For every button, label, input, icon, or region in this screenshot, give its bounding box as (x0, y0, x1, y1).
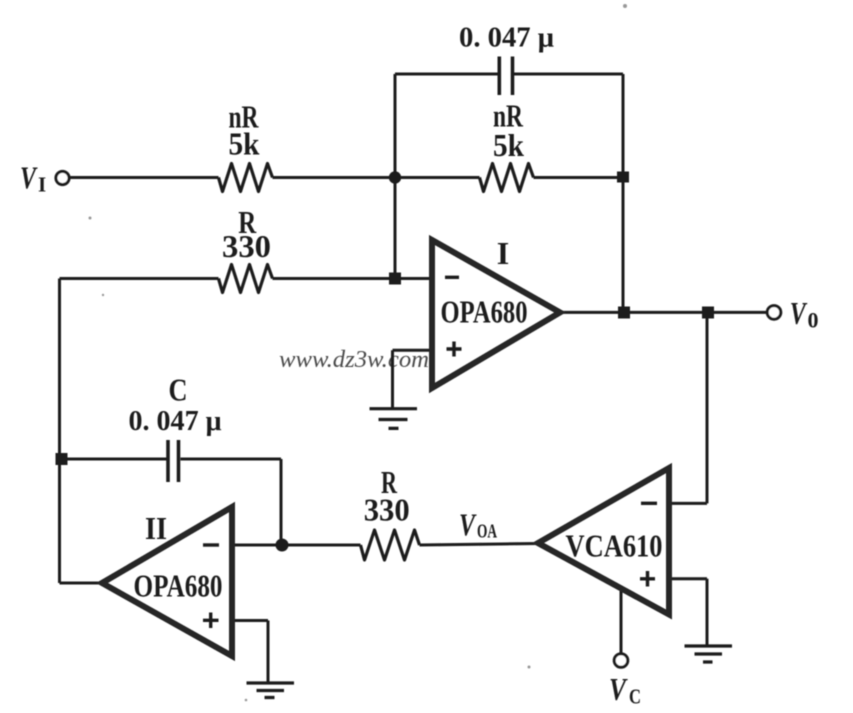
svg-text:VCA610: VCA610 (566, 529, 663, 564)
svg-text:I: I (497, 235, 509, 271)
svg-text:5k: 5k (229, 127, 260, 162)
svg-text:C: C (629, 685, 641, 709)
svg-text:330: 330 (364, 493, 410, 528)
svg-text:I: I (38, 173, 46, 197)
svg-text:0. 047 μ: 0. 047 μ (129, 406, 222, 437)
svg-text:www.dz3w.com: www.dz3w.com (279, 347, 429, 373)
svg-text:330: 330 (222, 229, 271, 264)
svg-text:OPA680: OPA680 (441, 295, 528, 330)
svg-text:C: C (169, 373, 188, 408)
svg-text:V: V (20, 160, 38, 196)
svg-text:V: V (790, 295, 808, 331)
svg-text:5k: 5k (493, 128, 524, 163)
svg-text:V: V (609, 671, 628, 707)
svg-text:V: V (459, 507, 477, 543)
svg-text:OPA680: OPA680 (134, 569, 223, 604)
svg-text:II: II (145, 510, 167, 546)
svg-text:OA: OA (477, 521, 497, 543)
svg-text:0: 0 (808, 308, 819, 333)
svg-text:0. 047 μ: 0. 047 μ (459, 22, 554, 53)
